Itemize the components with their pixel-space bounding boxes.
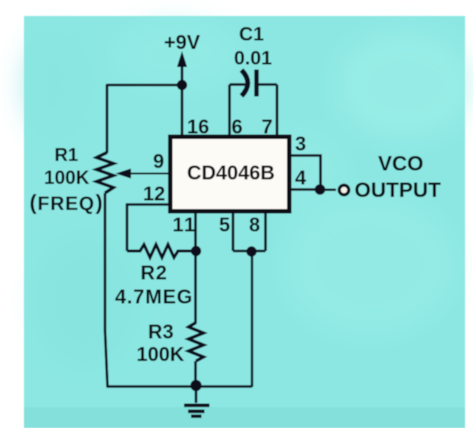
svg-text:CD4046B: CD4046B	[187, 163, 275, 185]
power +9V arrow	[177, 51, 187, 85]
svg-text:8: 8	[249, 215, 260, 237]
svg-text:0.01: 0.01	[234, 48, 272, 70]
wire pin 11 upper	[194, 212, 197, 323]
svg-text:12: 12	[143, 184, 165, 206]
wire pin 4	[291, 188, 320, 191]
svg-text:R3: R3	[148, 322, 174, 344]
node output junction	[315, 184, 326, 195]
wire pins 5-8 link	[233, 250, 266, 253]
svg-text:3: 3	[295, 134, 306, 156]
svg-text:R2: R2	[141, 263, 168, 285]
wire pin 5	[232, 212, 235, 251]
svg-text:R1: R1	[55, 144, 79, 165]
resistor R1 potentiometer	[97, 153, 169, 194]
svg-text:9: 9	[153, 151, 164, 173]
resistor R3	[189, 323, 204, 362]
wire left rail lower	[105, 193, 108, 387]
resistor R2	[127, 245, 196, 258]
svg-text:4.7MEG: 4.7MEG	[115, 287, 193, 309]
IC U1 CD4046B	[170, 137, 289, 212]
svg-text:7: 7	[262, 117, 273, 139]
wire junction to bottom rail	[251, 251, 253, 387]
wire pin 16	[181, 85, 184, 138]
wire pin 7	[276, 85, 279, 139]
svg-text:11: 11	[173, 215, 197, 237]
node supply junction	[177, 80, 187, 90]
svg-text:+9V: +9V	[164, 32, 201, 54]
wire pin 12	[127, 205, 168, 252]
svg-text:4: 4	[295, 168, 307, 190]
svg-text:5: 5	[219, 215, 230, 237]
wire bottom rail	[107, 385, 253, 387]
node pins 5-8 junction	[246, 246, 256, 256]
svg-text:): )	[96, 191, 103, 215]
svg-text:OUTPUT: OUTPUT	[355, 179, 442, 202]
wire pin 3	[291, 156, 321, 191]
wire left rail upper	[106, 84, 109, 153]
wire top-left horizontal	[107, 84, 182, 87]
capacitor C1	[230, 70, 278, 97]
svg-text:C1: C1	[239, 24, 264, 46]
ground	[184, 386, 210, 418]
node ground junction	[190, 380, 201, 391]
wire pin 8	[264, 212, 267, 251]
svg-text:FREQ: FREQ	[38, 193, 95, 215]
svg-text:VCO: VCO	[378, 153, 424, 176]
node R2 / pin 11 junction	[191, 246, 201, 256]
terminal VCO output	[339, 185, 349, 195]
wire pin 6	[228, 85, 231, 139]
svg-text:100K: 100K	[44, 168, 90, 189]
svg-text:6: 6	[232, 117, 243, 139]
wire R3 to bottom rail	[194, 361, 197, 387]
svg-text:16: 16	[187, 117, 209, 139]
svg-text:(: (	[30, 191, 38, 215]
wire to output terminal	[325, 189, 336, 191]
svg-text:100K: 100K	[137, 344, 185, 366]
